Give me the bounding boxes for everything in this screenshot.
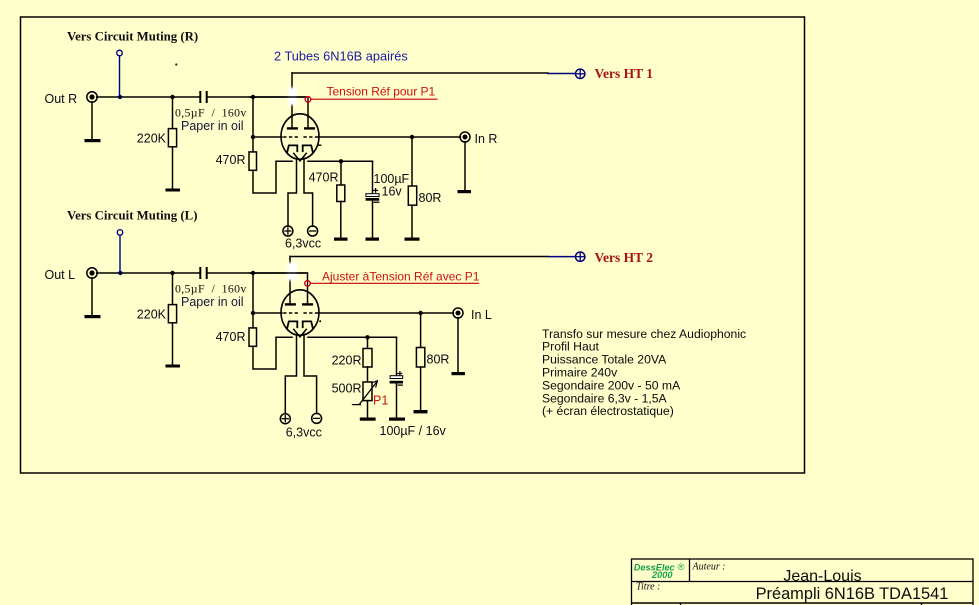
cathode left (287, 145, 297, 151)
terminal 6.3v minus (L) (312, 413, 322, 423)
wire to 220K (L) (172, 273, 174, 305)
ground under 80R (R) (405, 238, 420, 241)
wire 80R top (R) (411, 137, 413, 186)
wire grid dashed inside tube (283, 136, 298, 138)
resistor 80R (L) (416, 348, 424, 368)
ground under In L (452, 372, 466, 375)
wire cathode row (L) (308, 336, 397, 338)
svg-text:Vers HT 1: Vers HT 1 (595, 66, 654, 81)
wire 220K to ground (L) (172, 323, 174, 365)
anode lead right (to ref point) (307, 97, 309, 128)
heater filament V (L) (294, 329, 307, 337)
tube U1 6N16B (R) envelope (281, 114, 319, 159)
junction 470R cathode (339, 159, 343, 163)
heater leg left (288, 159, 297, 227)
svg-text:In R: In R (475, 132, 498, 146)
wire 470R bottom path to cathode (L) (253, 337, 292, 369)
wire anode to HT1 rail (292, 72, 548, 74)
svg-text:470R: 470R (216, 153, 246, 167)
cathode right (L) (303, 321, 313, 327)
svg-text:P1: P1 (373, 394, 388, 408)
capacitor 0,5uF 160v (L) (199, 267, 201, 279)
capacitor 100uF 16v (R) (366, 194, 379, 197)
svg-text:100µF / 16v: 100µF / 16v (380, 424, 447, 438)
wire In L to ground (457, 318, 459, 372)
svg-text:Puissance Totale 20VA: Puissance Totale 20VA (542, 353, 667, 367)
svg-text:470R: 470R (216, 330, 246, 344)
wire capacitor to grid node (L) (208, 272, 307, 274)
wire 220K to ground (172, 147, 174, 189)
stray dot (175, 63, 177, 65)
wire 80R top (L) (420, 313, 422, 348)
wire grid junction to 470R (L) (252, 313, 254, 328)
resistor 470R cathode (R) (337, 185, 345, 202)
svg-text:Jean-Louis: Jean-Louis (783, 568, 861, 585)
svg-text:Ajuster àTension Réf avec P1: Ajuster àTension Réf avec P1 (322, 269, 480, 283)
wire to 220K (172, 97, 174, 129)
svg-text:Transfo sur mesure chez Audiop: Transfo sur mesure chez Audiophonic (542, 327, 746, 341)
svg-text:Titre :: Titre : (636, 582, 660, 593)
wire to 100uF cap (R) (372, 161, 374, 193)
svg-text:500R: 500R (332, 382, 362, 396)
wire Out R to capacitor (97, 96, 200, 98)
svg-text:2 Tubes 6N16B apairés: 2 Tubes 6N16B apairés (274, 49, 408, 64)
white streak over anode wire (288, 88, 297, 106)
terminal 6.3v plus (R) (283, 226, 293, 236)
svg-text:Out L: Out L (45, 268, 76, 282)
wire to 100uF cap (L) (396, 337, 398, 375)
potentiometer 500R P1 (363, 382, 372, 401)
wire HT1 navy stub (548, 73, 575, 75)
wire grid right segment to In L (319, 312, 454, 314)
junction 220K top (L) (170, 271, 174, 275)
terminal Vers HT 2 (576, 252, 585, 261)
junction at x253 top (L) (251, 271, 255, 275)
svg-text:2000: 2000 (651, 570, 673, 580)
junction 220K top (170, 95, 174, 99)
terminal 6.3v plus (L) (280, 414, 290, 424)
ground under 470R (334, 238, 348, 241)
TITLE BLOCK (632, 559, 974, 605)
wire grid left segment (253, 136, 282, 138)
wire capacitor to grid node redraw (L) (250, 272, 306, 274)
anode plate right (304, 127, 315, 129)
junction grid left (L) (251, 311, 255, 315)
svg-text:®: ® (678, 562, 685, 573)
resistor 470R grid stopper (R) (249, 152, 257, 170)
terminal Vers HT 1 (576, 69, 585, 78)
wire 220R to pot (367, 367, 369, 382)
white streak over anode wire (L) (287, 263, 297, 281)
anode lead left (to HT2 rail) (289, 257, 291, 304)
svg-text:Paper in oil: Paper in oil (181, 119, 244, 133)
svg-text:Auteur :: Auteur : (692, 562, 726, 573)
resistor 220K (L) (168, 305, 176, 323)
junction 220R top (365, 335, 369, 339)
wire In R to ground (464, 142, 466, 190)
wire Out R down to ground (91, 102, 93, 139)
svg-text:Out R: Out R (45, 92, 78, 106)
LEFT CHANNEL (45, 209, 654, 440)
ground under 100uF (L) (389, 418, 405, 421)
junction 80R top (L) (418, 311, 422, 315)
node muting L (blue terminal circle) (117, 230, 123, 236)
junction grid left (251, 135, 255, 139)
svg-text:0,5µF / 160v: 0,5µF / 160v (175, 106, 247, 120)
resistor 220R (363, 349, 372, 368)
wire grid right segment to In R (319, 136, 461, 138)
svg-text:Vers Circuit Muting (R): Vers Circuit Muting (R) (67, 29, 198, 43)
resistor 220K (R) (168, 129, 176, 147)
svg-text:16v: 16v (382, 184, 403, 198)
terminal 6.3v minus (R) (308, 226, 318, 236)
wire capacitor to grid node (208, 96, 308, 98)
junction blue on Out R wire (118, 95, 122, 99)
anode lead right (to ref point) (L) (307, 273, 309, 304)
heater leg right (L) (304, 335, 317, 414)
anode plate left (287, 127, 298, 129)
resistor 80R (R) (408, 186, 416, 205)
wire muting R vertical (blue) (119, 56, 121, 97)
red net line Ajuster (310, 282, 478, 284)
terminal In L (453, 308, 463, 318)
node Ajuster Tension Ref (red circle) (305, 281, 311, 287)
svg-text:80R: 80R (419, 191, 442, 205)
wire HT2 navy stub (548, 256, 575, 258)
resistor 470R grid stopper (L) (249, 328, 257, 346)
svg-text:220R: 220R (332, 353, 362, 367)
svg-text:(+ écran électrostatique): (+ écran électrostatique) (542, 404, 674, 418)
svg-text:Vers Circuit Muting (L): Vers Circuit Muting (L) (67, 209, 197, 223)
anode plate left (L) (285, 303, 296, 305)
junction 80R top (410, 135, 414, 139)
wire to 470R cathode resistor (340, 161, 342, 185)
ground under In R (458, 190, 472, 193)
ground under Out L (85, 315, 101, 318)
svg-text:Préampli 6N16B TDA1541: Préampli 6N16B TDA1541 (756, 585, 949, 603)
terminal In R (460, 132, 470, 142)
svg-text:Tension Réf pour P1: Tension Réf pour P1 (327, 85, 436, 99)
svg-text:220K: 220K (137, 308, 167, 322)
anode plate right (L) (302, 303, 313, 305)
wire 80R to ground (411, 205, 413, 237)
svg-text:Vers HT 2: Vers HT 2 (595, 250, 654, 265)
ground under 80R (L) (414, 410, 428, 413)
wire cathode row (R) (308, 160, 373, 162)
ground under 220K (L) (166, 365, 181, 368)
wire 470R to ground (340, 202, 342, 238)
NOTES (542, 327, 746, 418)
tube U2 6N16B (L) envelope (281, 290, 319, 335)
wire down to grid line (252, 97, 254, 137)
svg-text:Segondaire 6,3v - 1,5A: Segondaire 6,3v - 1,5A (542, 391, 668, 405)
ground under 100uF (R) (366, 238, 380, 241)
RIGHT CHANNEL (45, 29, 654, 250)
ground under 220K (166, 189, 181, 192)
wire to 220R (367, 337, 369, 348)
capacitor 0,5uF 160v (R) (199, 91, 201, 103)
ground under pot (360, 418, 376, 421)
wire muting L vertical (blue) (119, 235, 121, 272)
svg-text:In L: In L (471, 308, 492, 322)
wire 80R to ground (L) (420, 367, 422, 410)
wire Out L to capacitor (97, 272, 200, 274)
capacitor 100uF 16v (L) (390, 376, 403, 379)
node Tension Ref (red circle) (305, 97, 311, 103)
node muting R (blue terminal circle) (117, 50, 123, 56)
wire grid dashed inside tube (L) (283, 312, 298, 314)
svg-text:Paper in oil: Paper in oil (181, 295, 244, 309)
svg-text:80R: 80R (427, 352, 450, 366)
wire 100uF to ground (L) (396, 383, 398, 418)
svg-text:0,5µF / 160v: 0,5µF / 160v (175, 282, 247, 296)
anode lead left (to HT rail) (291, 73, 293, 128)
wire 100uF to ground (372, 201, 374, 238)
svg-text:Segondaire 200v - 50 mA: Segondaire 200v - 50 mA (542, 378, 681, 392)
svg-text:6,3vcc: 6,3vcc (285, 236, 321, 250)
wire capacitor to grid node (redraw over streak) (250, 96, 306, 98)
svg-text:470R: 470R (309, 171, 339, 185)
wire grid junction to 470R (252, 137, 254, 152)
wire grid left segment (L) (253, 312, 282, 314)
junction blue on Out L wire (118, 271, 122, 275)
cathode right (303, 145, 313, 151)
svg-text:220K: 220K (137, 132, 167, 146)
wire 470R bottom path to cathode (253, 161, 292, 193)
wire anode to HT2 rail (290, 256, 548, 258)
ground under Out R (85, 139, 101, 142)
red net line Tension Ref (311, 98, 437, 100)
junction at x253 top (251, 95, 255, 99)
cathode left (L) (287, 321, 297, 327)
svg-text:6,3vcc: 6,3vcc (286, 426, 322, 440)
heater filament V (294, 153, 307, 161)
svg-text:Primaire 240v: Primaire 240v (542, 366, 618, 380)
wire pot to ground (367, 401, 369, 418)
wire down to grid line (L) (252, 273, 254, 313)
heater leg right (304, 159, 313, 227)
wire Out L down to ground (91, 278, 93, 315)
svg-text:Profil Haut: Profil Haut (542, 340, 600, 354)
heater leg left (L) (285, 335, 296, 414)
